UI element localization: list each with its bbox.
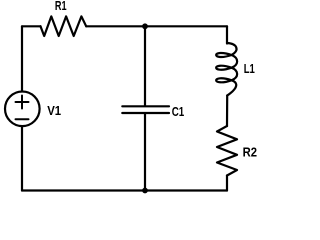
- capacitor C1: [122, 106, 169, 113]
- wire middle vertical upper: [144, 26, 146, 106]
- node junction dot top: [142, 23, 148, 29]
- svg-text:V1: V1: [47, 103, 61, 118]
- wire top run to right: [86, 25, 227, 27]
- svg-text:C1: C1: [172, 104, 185, 119]
- node junction dot bottom: [142, 188, 148, 194]
- V1 minus sign: [16, 118, 29, 120]
- wire right vertical lower: [226, 176, 228, 191]
- wire left vertical upper: [21, 26, 23, 91]
- svg-text:R2: R2: [243, 144, 257, 159]
- V1 plus sign: [16, 96, 29, 109]
- wire right middle: [226, 96, 228, 127]
- svg-text:R1: R1: [55, 0, 67, 13]
- wire right vertical upper: [226, 26, 228, 43]
- wire middle vertical lower: [144, 114, 146, 191]
- voltage source V1: [5, 92, 40, 127]
- wire left vertical lower: [21, 127, 23, 191]
- inductor L1: [216, 43, 237, 96]
- wire bottom run: [22, 189, 227, 191]
- wire top-left lead: [22, 25, 41, 27]
- svg-text:L1: L1: [244, 61, 255, 76]
- resistor R2: [217, 126, 237, 176]
- resistor R1: [41, 16, 87, 36]
